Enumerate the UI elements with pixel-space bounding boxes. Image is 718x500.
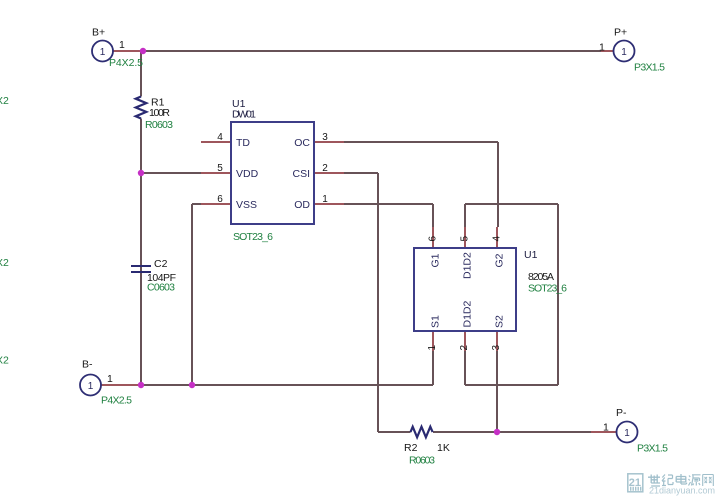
- svg-text:1: 1: [624, 428, 630, 439]
- svg-text:6: 6: [217, 194, 223, 205]
- svg-text:B+: B+: [92, 27, 105, 39]
- svg-text:1K: 1K: [437, 442, 450, 454]
- svg-text:3: 3: [322, 132, 328, 143]
- svg-text:D1D2: D1D2: [462, 300, 474, 327]
- svg-text:P-: P-: [616, 407, 627, 419]
- svg-text:P4X2.5: P4X2.5: [101, 395, 132, 407]
- svg-text:R2: R2: [404, 442, 418, 454]
- svg-text:X2: X2: [0, 95, 9, 107]
- svg-text:100R: 100R: [149, 107, 170, 119]
- svg-text:B-: B-: [82, 359, 93, 371]
- svg-text:C2: C2: [154, 258, 168, 270]
- svg-text:1: 1: [599, 42, 605, 54]
- svg-text:4: 4: [217, 132, 223, 143]
- svg-text:OD: OD: [294, 199, 310, 211]
- svg-text:1: 1: [88, 381, 94, 392]
- svg-text:P3X1.5: P3X1.5: [634, 62, 665, 74]
- svg-text:D1D2: D1D2: [462, 252, 474, 279]
- svg-text:1: 1: [100, 47, 106, 58]
- svg-text:5: 5: [460, 236, 471, 242]
- svg-text:1: 1: [119, 39, 125, 51]
- svg-text:21dianyuan.com: 21dianyuan.com: [649, 486, 715, 496]
- svg-text:R0603: R0603: [145, 119, 173, 131]
- svg-text:5: 5: [217, 163, 223, 174]
- svg-text:P3X1.5: P3X1.5: [637, 443, 668, 455]
- svg-text:1: 1: [621, 47, 627, 58]
- svg-text:G2: G2: [494, 253, 506, 267]
- svg-text:1: 1: [322, 194, 328, 205]
- svg-text:X2: X2: [0, 355, 9, 367]
- svg-text:G1: G1: [430, 253, 442, 267]
- svg-text:8205A: 8205A: [528, 271, 554, 283]
- svg-text:SOT23_6: SOT23_6: [233, 231, 273, 243]
- svg-text:TD: TD: [236, 137, 250, 149]
- svg-text:S1: S1: [430, 315, 442, 328]
- svg-text:6: 6: [428, 236, 439, 242]
- svg-text:P4X2.5: P4X2.5: [109, 57, 143, 69]
- svg-text:VDD: VDD: [236, 168, 259, 180]
- svg-text:P+: P+: [614, 27, 627, 39]
- svg-text:VSS: VSS: [236, 199, 257, 211]
- svg-text:2: 2: [459, 345, 470, 351]
- svg-text:DW01: DW01: [232, 109, 256, 121]
- svg-text:2: 2: [322, 163, 328, 174]
- svg-text:21: 21: [629, 477, 641, 489]
- svg-text:SOT23_6: SOT23_6: [528, 283, 567, 295]
- svg-text:3: 3: [491, 345, 502, 351]
- svg-text:X2: X2: [0, 257, 9, 269]
- svg-text:1: 1: [603, 422, 609, 434]
- svg-text:1: 1: [427, 345, 438, 351]
- svg-text:1: 1: [107, 373, 113, 385]
- svg-text:4: 4: [492, 236, 503, 242]
- svg-text:S2: S2: [494, 315, 506, 328]
- svg-text:C0603: C0603: [147, 282, 175, 294]
- svg-text:U1: U1: [524, 249, 538, 261]
- svg-text:R0603: R0603: [409, 455, 435, 467]
- svg-text:OC: OC: [294, 137, 310, 149]
- svg-text:CSI: CSI: [292, 168, 310, 180]
